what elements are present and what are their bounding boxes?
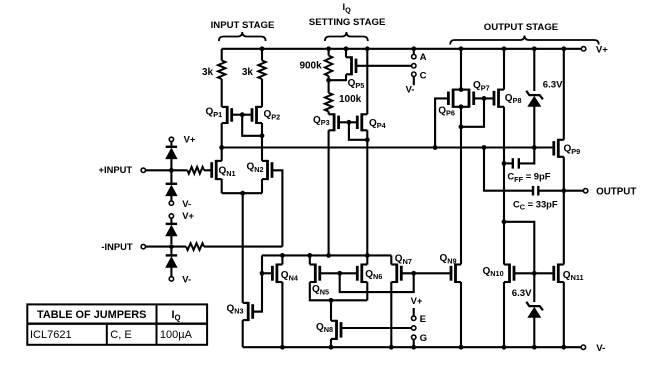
transistor QP1 xyxy=(206,106,243,124)
svg-text:V+: V+ xyxy=(184,134,196,145)
wire first stage output line xyxy=(222,146,554,148)
wire QN2 gate drop to -input xyxy=(272,170,282,246)
node output xyxy=(561,188,566,193)
terminal V- +input clamp xyxy=(169,198,191,209)
wire QP6 gate drop to output line xyxy=(435,98,448,147)
svg-text:3k: 3k xyxy=(242,67,254,78)
transistor QN10 xyxy=(483,264,515,284)
terminal E xyxy=(412,308,427,325)
terminal A xyxy=(412,49,427,63)
node QP3 QP4 gates xyxy=(347,120,352,125)
terminal +INPUT xyxy=(141,168,145,172)
svg-text:V-: V- xyxy=(406,84,415,95)
wire G to rail xyxy=(413,340,415,348)
wire V+ top rail xyxy=(222,48,582,50)
terminal jumper common bottom xyxy=(412,326,416,330)
wire QP5 gate to jumper xyxy=(356,65,412,67)
transistor QP5 xyxy=(329,49,365,90)
wire QN1 source xyxy=(221,179,223,193)
transistor QN9 xyxy=(440,253,462,283)
node QN8 source rail xyxy=(329,345,334,350)
diode -input to V- xyxy=(165,247,177,277)
node QN9 source rail xyxy=(459,345,464,350)
node zener rail xyxy=(532,345,537,350)
node rail QP6/QP7 source xyxy=(459,46,464,51)
wire -input lead xyxy=(146,246,187,248)
wire QP gate tie to QP2 drain xyxy=(242,115,262,136)
wire +input lead xyxy=(146,169,188,171)
transistor QN3 xyxy=(227,302,263,321)
wire QP8 drain column xyxy=(503,107,505,265)
capacitor CFF = 9pF xyxy=(504,148,551,184)
wire QP7/8 gate tie to drain xyxy=(461,98,484,126)
resistor -input series xyxy=(186,243,282,250)
node rail jumper A xyxy=(411,46,416,51)
wire QP9 drain to output node xyxy=(563,157,565,191)
transistor QN4 xyxy=(262,255,299,283)
terminal OUTPUT xyxy=(564,186,637,197)
node QN7 source rail xyxy=(389,345,394,350)
transistor QP9 xyxy=(554,49,580,158)
node rail QP5 xyxy=(344,46,349,51)
wire second stage drain line xyxy=(262,254,391,256)
resistor +input series xyxy=(187,167,211,174)
svg-text:C, E: C, E xyxy=(110,329,131,341)
terminal V+ rail xyxy=(581,45,608,56)
node rail zener xyxy=(532,46,537,51)
node rail / 3k right xyxy=(260,46,265,51)
svg-text:G: G xyxy=(420,333,427,344)
label OUTPUT STAGE xyxy=(484,22,559,33)
wire QP4 source column xyxy=(366,49,368,115)
node QP1 QP2 gates xyxy=(240,112,245,117)
label V+ jumper xyxy=(411,295,423,306)
node G rail xyxy=(411,345,416,350)
svg-text:E: E xyxy=(420,314,427,325)
transistor QN7 xyxy=(391,254,412,284)
node QN8 drain xyxy=(329,298,334,303)
node rail QP8 xyxy=(502,46,507,51)
node QN10 drain tap xyxy=(502,219,507,224)
wire gate U-link QN5/6 to QN7/9 xyxy=(340,273,414,292)
transistor QP3 xyxy=(313,113,349,131)
transistor QN6 xyxy=(357,255,382,283)
terminal V- rail xyxy=(581,343,605,354)
resistor 3k left xyxy=(202,49,225,107)
node first stage output at QP1/QN1 xyxy=(219,145,224,150)
wire QN4 diode link column xyxy=(253,255,262,311)
node QP2 drain tie xyxy=(260,133,265,138)
transistor QP8 xyxy=(494,49,522,108)
label INPUT STAGE xyxy=(211,20,275,31)
diode +input to V- xyxy=(165,170,177,201)
svg-text:C: C xyxy=(420,71,427,82)
node QN7 QN9 gates xyxy=(411,271,416,276)
transistor QN11 xyxy=(554,191,584,283)
wire QN8 source to rail xyxy=(330,339,332,347)
diode +input to V+ xyxy=(165,142,177,168)
terminal G xyxy=(412,333,428,344)
zener diode 6.3V lower xyxy=(512,273,543,347)
transistor QN5 xyxy=(310,255,329,296)
wire QN10 drain tie to gates xyxy=(504,222,534,273)
node QP4 QN6 on drain line xyxy=(365,253,370,258)
node rail QP9 xyxy=(561,46,566,51)
brace IQ setting stage xyxy=(325,32,368,41)
table of jumpers xyxy=(27,304,207,344)
transistor QN2 xyxy=(247,160,273,180)
svg-text:6.3V: 6.3V xyxy=(543,80,563,91)
diode -input to V+ xyxy=(165,218,177,244)
wire QN7 source to rail xyxy=(390,282,392,347)
wire tail to QN3 drain xyxy=(242,193,244,303)
wire QP4 drain to second stage xyxy=(366,130,368,255)
wire QP6/7 drains to QN9 drain xyxy=(460,107,462,265)
svg-text:3k: 3k xyxy=(202,67,214,78)
svg-text:SETTING STAGE: SETTING STAGE xyxy=(309,17,386,28)
node QN4 drain xyxy=(280,253,285,258)
svg-text:900k: 900k xyxy=(299,60,322,71)
brace output stage xyxy=(450,36,599,45)
resistor 900k xyxy=(299,49,332,80)
svg-text:+INPUT: +INPUT xyxy=(98,164,132,175)
label +INPUT xyxy=(98,164,132,175)
node rail QP4 xyxy=(365,46,370,51)
terminal C xyxy=(412,71,427,82)
wire rail to QP6/QP7 box xyxy=(460,49,462,90)
label IQ xyxy=(343,1,352,14)
node QN4 gate link xyxy=(260,271,265,276)
wire QN9 source to rail xyxy=(460,282,462,347)
resistor 100k xyxy=(325,80,362,114)
svg-text:6.3V: 6.3V xyxy=(512,288,532,299)
wire QP6/QP7 box top xyxy=(453,87,469,92)
terminal -INPUT xyxy=(141,244,145,248)
node QP4 drain tie xyxy=(365,137,370,142)
label -INPUT xyxy=(101,241,133,252)
wire QN6 source to QN5 source line xyxy=(366,282,368,300)
wire QP2 drain to QN2 drain xyxy=(261,123,263,161)
svg-text:V+: V+ xyxy=(182,210,194,221)
wire QP gate tie to QP4 drain xyxy=(349,122,367,140)
wire QN7 QN9 gate lead xyxy=(401,272,451,274)
node tail xyxy=(240,191,245,196)
terminal jumper common top xyxy=(412,64,416,68)
transistor QP4 xyxy=(349,113,387,131)
svg-text:OUTPUT: OUTPUT xyxy=(596,186,636,197)
svg-text:A: A xyxy=(420,52,427,63)
wire QN4 source to rail xyxy=(281,282,283,347)
node CFF tap QP8 drain xyxy=(502,161,507,166)
wire QP6/QP7 box bottom xyxy=(453,104,469,109)
node QN5 drain xyxy=(307,253,312,258)
zener diode 6.3V upper xyxy=(526,49,563,148)
wire QP3 drain to second stage xyxy=(328,130,330,255)
wire QN5 QN6 gate lead xyxy=(320,272,358,274)
wire QN5 source line xyxy=(310,282,368,300)
wire C to V- xyxy=(406,77,415,95)
wire QN8 gate to jumper xyxy=(341,327,412,329)
node rail 900k xyxy=(326,46,331,51)
svg-text:-INPUT: -INPUT xyxy=(101,241,133,252)
capacitor CC = 33pF xyxy=(484,148,564,212)
node 900k 100k QP5 source xyxy=(326,78,331,83)
svg-text:TABLE OF JUMPERS: TABLE OF JUMPERS xyxy=(37,309,146,321)
wire QN2 source xyxy=(261,179,263,193)
terminal V- -input clamp xyxy=(169,273,191,284)
transistor QP2 xyxy=(242,106,280,124)
node QP6/7 drain tie xyxy=(459,124,464,129)
wire QP7 gate to QP8 gate xyxy=(474,97,494,99)
transistor QN1 xyxy=(212,160,236,180)
node QN10 QN11 gates xyxy=(532,271,537,276)
node CC tap on output line xyxy=(482,145,487,150)
resistor 3k right xyxy=(242,49,266,107)
node +input clamp junction xyxy=(169,168,174,173)
node QP6 gate on output line xyxy=(433,145,438,150)
brace input stage xyxy=(219,32,266,41)
svg-text:OUTPUT STAGE: OUTPUT STAGE xyxy=(484,22,559,33)
terminal V+ +input clamp xyxy=(169,134,196,145)
node QN10 source rail xyxy=(502,345,507,350)
label SETTING STAGE xyxy=(309,17,386,28)
wire V- bottom rail xyxy=(243,346,582,348)
svg-text:V-: V- xyxy=(182,273,191,284)
node QN5 QN6 gates xyxy=(337,271,342,276)
svg-text:100k: 100k xyxy=(339,94,362,105)
node QP3 on drain line xyxy=(326,253,331,258)
svg-text:INPUT STAGE: INPUT STAGE xyxy=(211,20,275,31)
transistor QP6 xyxy=(438,89,455,118)
wire QP1 drain column xyxy=(221,123,223,161)
terminal V+ -input clamp xyxy=(169,210,194,221)
wire QN3 source to rail corner xyxy=(242,320,244,347)
svg-text:V-: V- xyxy=(596,343,605,354)
node QN4 source rail xyxy=(280,345,285,350)
node QP7 QP8 gates xyxy=(482,96,487,101)
svg-text:V-: V- xyxy=(182,198,191,209)
wire QN10 source to rail xyxy=(503,282,505,347)
svg-text:100µA: 100µA xyxy=(160,329,193,341)
svg-text:V+: V+ xyxy=(596,45,608,56)
svg-text:V+: V+ xyxy=(411,295,423,306)
node zener on output line xyxy=(532,145,537,150)
transistor QP7 xyxy=(469,80,490,108)
wire input pair source line xyxy=(222,192,262,194)
node QN11 source rail xyxy=(561,345,566,350)
svg-text:ICL7621: ICL7621 xyxy=(30,329,72,341)
transistor QN8 xyxy=(316,300,341,340)
node -input clamp junction xyxy=(169,244,174,249)
wire QN11 source to rail xyxy=(563,282,565,347)
wire QN10 QN11 gate lead xyxy=(514,272,554,274)
